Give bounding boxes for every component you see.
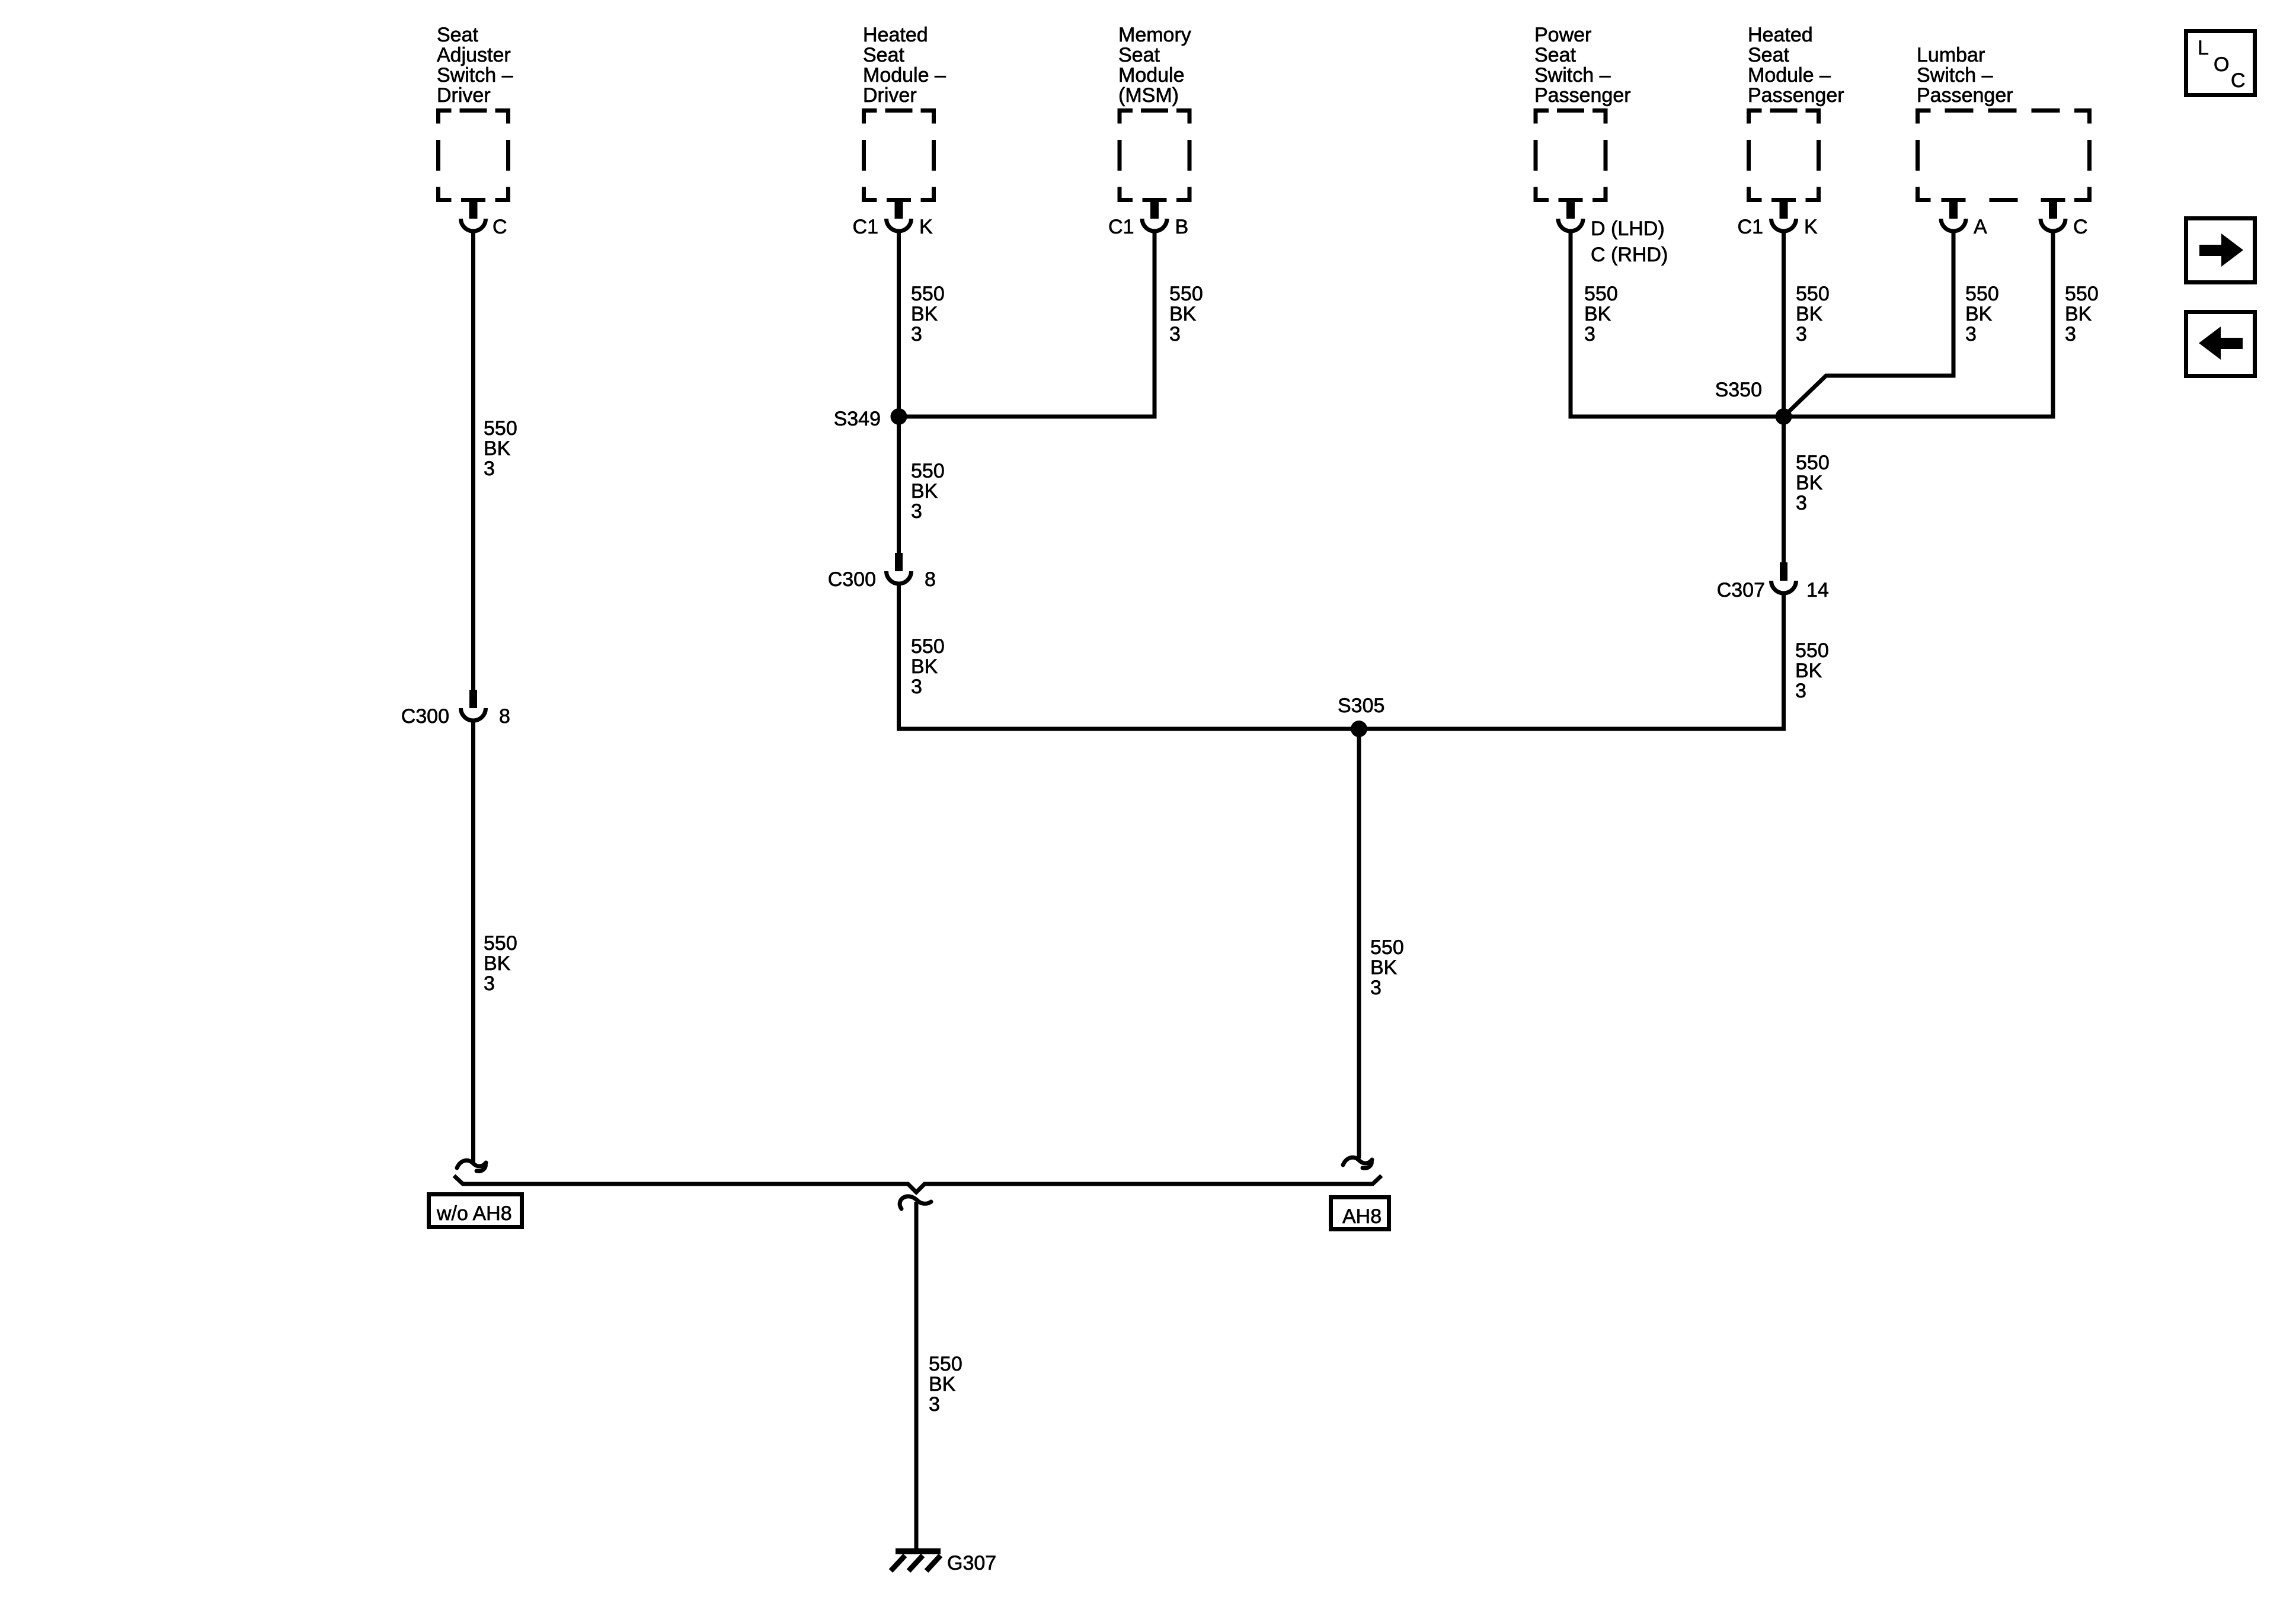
wire label 550 BK 3 (below S350) bbox=[1796, 452, 1830, 514]
splice S350 bbox=[1715, 379, 1792, 425]
option break squiggle (driver wire end) bbox=[457, 1160, 486, 1168]
svg-text:C300: C300 bbox=[401, 705, 449, 728]
component U6 Lumbar Switch - Passenger (dashed box) bbox=[1916, 108, 2092, 202]
svg-text:B: B bbox=[1175, 216, 1189, 238]
svg-text:Module –: Module – bbox=[1748, 64, 1831, 87]
pin K of Heated Seat Module Driver, connector C1 bbox=[853, 198, 933, 238]
svg-text:BK: BK bbox=[1796, 472, 1823, 494]
svg-text:BK: BK bbox=[911, 480, 938, 502]
svg-text:3: 3 bbox=[484, 457, 495, 480]
svg-text:BK: BK bbox=[929, 1373, 956, 1395]
svg-text:C300: C300 bbox=[828, 568, 876, 591]
wire: Memory Seat Module pin B down to S349 bus bbox=[1153, 231, 1157, 419]
svg-text:w/o AH8: w/o AH8 bbox=[436, 1202, 512, 1225]
svg-text:Passenger: Passenger bbox=[1917, 84, 2013, 107]
svg-text:550: 550 bbox=[911, 460, 945, 482]
svg-text:Switch –: Switch – bbox=[437, 64, 513, 87]
option break squiggle (S305 wire end) bbox=[1343, 1157, 1372, 1165]
svg-text:3: 3 bbox=[1370, 977, 1382, 999]
svg-text:Switch –: Switch – bbox=[1917, 64, 1993, 87]
wire: C300 center branch down to S305 bus bbox=[899, 584, 1360, 729]
svg-text:Seat: Seat bbox=[1748, 44, 1789, 66]
svg-text:550: 550 bbox=[929, 1353, 962, 1375]
component U1 Seat Adjuster Switch - Driver (dashed box) bbox=[436, 108, 510, 202]
svg-text:Heated: Heated bbox=[1748, 24, 1813, 46]
option merge brace (bottom bus) bbox=[454, 1176, 1382, 1192]
wire label 550 BK 3 (driver switch wire, lower) bbox=[484, 932, 517, 995]
svg-text:3: 3 bbox=[1169, 323, 1181, 345]
wire: S349 down to C300 (center branch) bbox=[897, 417, 901, 553]
svg-text:Passenger: Passenger bbox=[1534, 84, 1631, 107]
pin K of Heated Seat Module Passenger, connector C1 bbox=[1738, 198, 1818, 238]
svg-text:550: 550 bbox=[1795, 639, 1829, 662]
wire label 550 BK 3 (ground wire) bbox=[929, 1353, 962, 1416]
component U2 Heated Seat Module - Driver (dashed box) bbox=[862, 108, 936, 202]
LOC legend box bbox=[2186, 31, 2255, 95]
wire: Lumbar Switch pin A down to jog bbox=[1784, 231, 1954, 417]
svg-text:Adjuster: Adjuster bbox=[437, 44, 511, 66]
legend arrow box (left arrow) bbox=[2186, 312, 2255, 376]
component U5 Heated Seat Module - Passenger (dashed box) bbox=[1747, 108, 1821, 202]
svg-text:K: K bbox=[1804, 216, 1818, 238]
svg-text:C307: C307 bbox=[1717, 579, 1765, 601]
wire: S305 down to option brace bbox=[1357, 729, 1361, 1158]
inline connector C307 pin 14 bbox=[1717, 562, 1829, 601]
legend arrow box (right arrow) bbox=[2186, 219, 2255, 283]
svg-text:S349: S349 bbox=[834, 408, 881, 430]
svg-text:BK: BK bbox=[484, 437, 511, 460]
svg-text:3: 3 bbox=[2065, 323, 2076, 345]
svg-text:C1: C1 bbox=[1738, 216, 1763, 238]
splice S305 bbox=[1338, 694, 1384, 737]
svg-text:S305: S305 bbox=[1338, 694, 1384, 717]
wire: Power Seat Switch down to S350 bus bbox=[1569, 231, 1573, 419]
svg-text:C1: C1 bbox=[1108, 216, 1134, 238]
component U6 Lumbar Switch - Passenger (label) bbox=[1917, 44, 2013, 107]
svg-text:550: 550 bbox=[2065, 283, 2099, 305]
svg-text:L: L bbox=[2198, 37, 2209, 59]
svg-text:BK: BK bbox=[1965, 303, 1993, 325]
wire label 550 BK 3 (lumbar A) bbox=[1965, 283, 1999, 345]
svg-text:550: 550 bbox=[1584, 283, 1618, 305]
svg-text:G307: G307 bbox=[947, 1552, 996, 1574]
svg-text:BK: BK bbox=[911, 303, 938, 325]
svg-text:(MSM): (MSM) bbox=[1118, 84, 1179, 107]
svg-text:Driver: Driver bbox=[863, 84, 917, 107]
svg-text:Module –: Module – bbox=[863, 64, 946, 87]
svg-text:Driver: Driver bbox=[437, 84, 491, 107]
pin C of Lumbar Switch (connector symbol) bbox=[2041, 198, 2088, 238]
wire label 550 BK 3 (memory seat module) bbox=[1169, 283, 1203, 345]
wire: Seat Adjuster Switch pin C down to C300 bbox=[471, 231, 475, 690]
wire: brace centre down to ground bbox=[914, 1202, 919, 1551]
inline connector C300 pin 8 (driver side) bbox=[401, 690, 510, 728]
wire: C307 down to S305 bus bbox=[1359, 593, 1784, 729]
inline connector C300 pin 8 (center branch) bbox=[828, 553, 936, 591]
svg-text:Power: Power bbox=[1534, 24, 1591, 46]
svg-text:3: 3 bbox=[1795, 680, 1806, 702]
svg-text:550: 550 bbox=[911, 635, 945, 658]
svg-text:3: 3 bbox=[484, 972, 495, 995]
svg-text:Seat: Seat bbox=[863, 44, 904, 66]
wire: S349 horizontal bus bbox=[899, 415, 1155, 419]
component U3 Memory Seat Module (dashed box) bbox=[1118, 108, 1192, 202]
svg-text:550: 550 bbox=[911, 283, 945, 305]
option tag box: w/o AH8 bbox=[429, 1195, 522, 1227]
svg-text:Memory: Memory bbox=[1118, 24, 1191, 46]
svg-text:Passenger: Passenger bbox=[1748, 84, 1844, 107]
wire label 550 BK 3 (below S349) bbox=[911, 460, 945, 523]
wire label 550 BK 3 (power seat switch) bbox=[1584, 283, 1618, 345]
component U4 Power Seat Switch - Passenger (dashed box) bbox=[1534, 108, 1608, 202]
wire: C300 driver side down to option brace bbox=[471, 721, 475, 1163]
svg-text:BK: BK bbox=[1169, 303, 1197, 325]
svg-text:C: C bbox=[2231, 69, 2246, 92]
option tag box: AH8 bbox=[1331, 1198, 1389, 1230]
wire label 550 BK 3 (below C300 center) bbox=[911, 635, 945, 698]
svg-text:Switch –: Switch – bbox=[1534, 64, 1611, 87]
svg-text:BK: BK bbox=[1370, 956, 1398, 979]
svg-text:S350: S350 bbox=[1715, 379, 1762, 401]
svg-text:BK: BK bbox=[1584, 303, 1611, 325]
component U2 Heated Seat Module - Driver (label) bbox=[863, 24, 946, 107]
svg-text:550: 550 bbox=[1370, 936, 1404, 959]
svg-text:A: A bbox=[1974, 216, 1987, 238]
svg-text:Seat: Seat bbox=[437, 24, 478, 46]
svg-text:BK: BK bbox=[1795, 660, 1822, 682]
svg-text:550: 550 bbox=[484, 932, 517, 955]
svg-text:Heated: Heated bbox=[863, 24, 928, 46]
component U1 Seat Adjuster Switch - Driver (label) bbox=[437, 24, 513, 107]
svg-text:3: 3 bbox=[911, 323, 922, 345]
svg-text:550: 550 bbox=[1169, 283, 1203, 305]
svg-text:C: C bbox=[2073, 216, 2088, 238]
svg-text:AH8: AH8 bbox=[1342, 1205, 1382, 1228]
svg-text:Seat: Seat bbox=[1118, 44, 1160, 66]
svg-text:3: 3 bbox=[911, 676, 922, 698]
wire label 550 BK 3 (heated seat passenger) bbox=[1796, 283, 1830, 345]
pin D (LHD) / C (RHD) of Power Seat Switch bbox=[1558, 198, 1668, 266]
svg-text:550: 550 bbox=[1965, 283, 1999, 305]
svg-text:8: 8 bbox=[925, 568, 936, 591]
svg-text:Seat: Seat bbox=[1534, 44, 1576, 66]
svg-text:3: 3 bbox=[1584, 323, 1595, 345]
svg-text:Module: Module bbox=[1118, 64, 1185, 87]
wire label 550 BK 3 (lumbar C) bbox=[2065, 283, 2099, 345]
wire: S350 horizontal bus bbox=[1571, 415, 2053, 419]
wire: S350 down to C307 bbox=[1782, 417, 1786, 563]
svg-text:3: 3 bbox=[929, 1393, 940, 1416]
svg-text:D (LHD): D (LHD) bbox=[1591, 217, 1665, 240]
wire: Heated Seat Module Passenger down through S350 bbox=[1782, 231, 1786, 563]
pigtail below brace centre bbox=[900, 1196, 931, 1209]
wire label 550 BK 3 (driver switch wire, upper) bbox=[484, 417, 517, 480]
svg-text:Lumbar: Lumbar bbox=[1917, 44, 1985, 66]
wire: Heated Seat Module Driver pin K down to S349 bbox=[897, 231, 901, 417]
pin A of Lumbar Switch (connector symbol) bbox=[1941, 198, 1987, 238]
svg-text:C (RHD): C (RHD) bbox=[1591, 244, 1668, 266]
svg-text:C: C bbox=[493, 216, 507, 238]
pin C of Seat Adjuster Switch (connector symbol) bbox=[461, 198, 507, 238]
wire label 550 BK 3 (below C307) bbox=[1795, 639, 1829, 702]
svg-text:BK: BK bbox=[2065, 303, 2092, 325]
splice S349 bbox=[834, 408, 907, 430]
svg-text:8: 8 bbox=[499, 705, 510, 728]
svg-text:C1: C1 bbox=[853, 216, 878, 238]
svg-text:O: O bbox=[2214, 53, 2229, 76]
svg-text:3: 3 bbox=[1965, 323, 1977, 345]
svg-text:3: 3 bbox=[1796, 492, 1807, 514]
svg-text:3: 3 bbox=[911, 500, 922, 523]
component U4 Power Seat Switch - Passenger (label) bbox=[1534, 24, 1631, 107]
svg-text:BK: BK bbox=[484, 952, 511, 975]
svg-text:K: K bbox=[919, 216, 933, 238]
svg-text:550: 550 bbox=[1796, 283, 1830, 305]
wire label 550 BK 3 (heated seat driver) bbox=[911, 283, 945, 345]
svg-text:550: 550 bbox=[484, 417, 517, 440]
component U5 Heated Seat Module - Passenger (label) bbox=[1748, 24, 1844, 107]
svg-text:BK: BK bbox=[1796, 303, 1823, 325]
svg-text:14: 14 bbox=[1806, 579, 1829, 601]
svg-text:550: 550 bbox=[1796, 452, 1830, 474]
wire: Lumbar Switch pin C down to S350 bus bbox=[2051, 231, 2055, 419]
svg-text:3: 3 bbox=[1796, 323, 1807, 345]
pin B of Memory Seat Module, connector C1 bbox=[1108, 198, 1188, 238]
ground G307 bbox=[891, 1548, 996, 1574]
svg-text:BK: BK bbox=[911, 655, 938, 678]
wire label 550 BK 3 (below S305) bbox=[1370, 936, 1404, 999]
component U3 Memory Seat Module (MSM) (label) bbox=[1118, 24, 1191, 107]
